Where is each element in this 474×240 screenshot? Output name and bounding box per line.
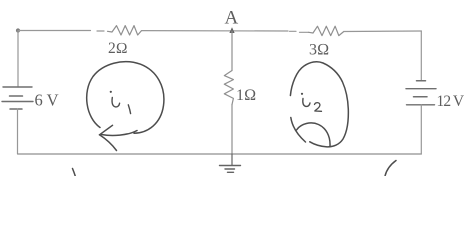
wire top left horizontal bbox=[18, 30, 91, 32]
svg-text:2Ω: 2Ω bbox=[108, 40, 128, 57]
battery 6V plate long bbox=[2, 101, 33, 103]
label i1 body bbox=[112, 98, 120, 107]
wire middle vertical upper bbox=[231, 31, 233, 71]
battery 12V plate long bbox=[406, 88, 436, 90]
battery 12V plate long bottom bbox=[407, 104, 435, 106]
node dot top-left corner bbox=[16, 28, 20, 32]
wire right vertical upper bbox=[420, 31, 422, 81]
label i2 subscript 2 bbox=[315, 103, 322, 112]
ground bar 1 bbox=[220, 165, 241, 167]
battery 6V plate short bbox=[10, 95, 23, 97]
resistor 1 ohm vertical zigzag bbox=[224, 71, 233, 105]
svg-text:1Ω: 1Ω bbox=[236, 87, 256, 104]
wire top middle horizontal bbox=[142, 30, 289, 32]
ground bar 2 bbox=[225, 168, 235, 170]
wire left vertical upper bbox=[17, 31, 19, 88]
label i1 dot bbox=[110, 91, 112, 93]
wire dash before R 3ohm bbox=[290, 30, 297, 32]
svg-text:12 V: 12 V bbox=[437, 93, 465, 110]
wire right vertical lower bbox=[420, 105, 422, 154]
svg-text:3Ω: 3Ω bbox=[309, 42, 329, 59]
label i2 dot bbox=[301, 93, 303, 95]
wire top right horizontal bbox=[344, 30, 422, 33]
loop i1 arrowhead upper stroke bbox=[100, 125, 113, 135]
wire left vertical lower bbox=[17, 109, 19, 154]
stray pen tick bottom-left bbox=[73, 169, 76, 177]
battery 6V plate long top bbox=[3, 86, 32, 88]
loop current i2 outline bbox=[290, 62, 348, 147]
node A junction arrowhead bbox=[229, 27, 234, 33]
label i1 subscript stroke bbox=[128, 105, 130, 114]
loop current i1 circle bbox=[87, 62, 164, 134]
loop i1 arrowhead lower stroke bbox=[100, 135, 117, 151]
stray pen paren bottom-right bbox=[385, 161, 396, 177]
svg-text:A: A bbox=[225, 8, 239, 29]
wire lead into 3 ohm bbox=[300, 31, 309, 33]
ground stub wire bbox=[231, 154, 233, 165]
wire middle vertical lower bbox=[231, 105, 233, 154]
wire bottom horizontal bbox=[18, 153, 421, 155]
wire dash before R 2ohm bbox=[97, 30, 104, 32]
resistor 3 ohm zigzag bbox=[309, 26, 344, 35]
battery 6V plate short bottom bbox=[10, 108, 22, 110]
loop i2 inner hump stroke bbox=[297, 123, 331, 146]
loop i2 left diagonal stroke bbox=[291, 118, 306, 143]
battery 12V plate short bbox=[414, 96, 428, 98]
resistor 2 ohm zigzag bbox=[108, 26, 142, 35]
label i2 body bbox=[303, 99, 310, 107]
ground bar 3 bbox=[228, 171, 234, 173]
loop i1 arrow tail bbox=[102, 131, 138, 136]
battery 12V plate short top bbox=[417, 80, 426, 82]
svg-text:6 V: 6 V bbox=[35, 90, 59, 109]
